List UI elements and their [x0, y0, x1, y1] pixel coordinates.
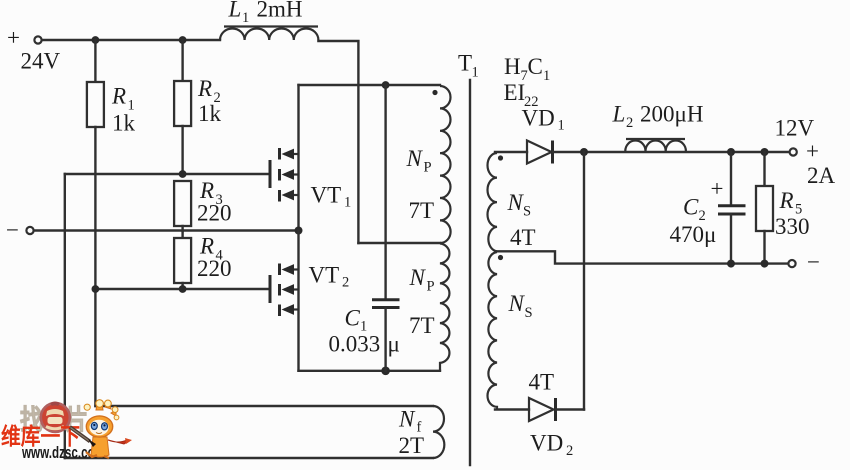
value label L2 200uH	[612, 102, 704, 132]
wire primary center tap	[358, 242, 440, 244]
value label R1 1k	[111, 84, 136, 136]
svg-text:P: P	[427, 279, 435, 295]
label VT2	[309, 263, 350, 291]
svg-text:−: −	[6, 218, 19, 243]
svg-text:1: 1	[344, 195, 351, 211]
transformer core T1	[469, 80, 471, 465]
junction dot R5 top	[761, 148, 769, 156]
svg-text:N: N	[398, 407, 416, 432]
svg-text:N: N	[508, 291, 526, 316]
junction dot R5 bottom	[761, 260, 769, 268]
watermark logo dzsc	[1, 400, 132, 462]
value label R4 220	[197, 234, 232, 282]
svg-text:VT: VT	[311, 183, 342, 208]
svg-text:S: S	[523, 204, 531, 220]
svg-text:H: H	[504, 54, 521, 79]
transformer T1 primary winding lower Np	[440, 244, 449, 371]
svg-text:220: 220	[197, 256, 232, 281]
svg-text:1: 1	[558, 118, 565, 134]
junction dot C1 bottom	[381, 367, 390, 376]
svg-text:2T: 2T	[399, 433, 425, 458]
node - input terminal	[6, 218, 34, 243]
svg-text:R: R	[779, 188, 794, 213]
svg-text:T: T	[458, 51, 472, 76]
junction dot C1 top	[382, 81, 390, 89]
svg-text:7T: 7T	[409, 198, 435, 223]
node - output terminal	[788, 250, 820, 275]
svg-text:μ: μ	[388, 332, 400, 357]
svg-text:+: +	[7, 25, 20, 50]
label VD1	[522, 106, 565, 134]
svg-text:12V: 12V	[775, 116, 815, 141]
node + input terminal 24V	[7, 25, 61, 74]
label core H7C1 EI22	[504, 54, 551, 110]
value label R3 220	[197, 178, 232, 226]
wire feedback left drop	[64, 174, 66, 458]
svg-text:P: P	[424, 160, 432, 176]
wire L1 to center tap	[318, 41, 358, 243]
label Np 7T lower	[409, 265, 435, 338]
label Np 7T upper	[406, 146, 435, 223]
inductor L2	[625, 139, 686, 151]
svg-text:1: 1	[242, 10, 249, 26]
junction dot C2 bottom	[727, 260, 735, 268]
label Ns lower	[508, 291, 533, 321]
inductor L1	[220, 27, 318, 41]
diode VD2	[529, 398, 556, 421]
svg-text:0.033: 0.033	[329, 332, 381, 357]
value label L1 2mH	[228, 0, 303, 26]
junction dot rectifier node	[580, 148, 588, 156]
svg-text:2mH: 2mH	[257, 0, 303, 22]
svg-text:R: R	[199, 178, 214, 203]
svg-text:220: 220	[197, 201, 232, 226]
svg-text:2: 2	[566, 443, 573, 459]
svg-text:470μ: 470μ	[670, 222, 717, 247]
capacitor C2	[711, 152, 746, 264]
svg-text:L: L	[612, 102, 626, 127]
junction dot R4 bottom	[179, 285, 187, 293]
svg-text:4T: 4T	[510, 225, 536, 250]
wire VD1 to output plus rail	[553, 151, 790, 153]
svg-text:VT: VT	[309, 263, 340, 288]
diode VD1	[527, 141, 553, 164]
wire VT1 drain top rail	[299, 84, 441, 86]
label T1	[458, 51, 479, 81]
svg-text:1k: 1k	[112, 111, 136, 136]
svg-text:7T: 7T	[409, 313, 435, 338]
capacitor C1	[372, 85, 400, 371]
svg-text:C: C	[528, 54, 543, 79]
junction dot R1 top	[92, 36, 100, 44]
svg-text:2A: 2A	[807, 163, 836, 188]
svg-text:EI: EI	[504, 80, 526, 105]
label VT1	[311, 183, 352, 211]
svg-text:200μH: 200μH	[640, 102, 703, 127]
value label C1 0.033 u	[329, 306, 400, 357]
wire +24V rail	[42, 39, 220, 41]
transistor VT1	[270, 85, 299, 231]
label Ns 4T upper	[507, 190, 536, 250]
wire VT2 gate line	[95, 288, 270, 290]
transistor VT2	[270, 231, 299, 371]
svg-text:330: 330	[775, 214, 810, 239]
svg-text:C: C	[683, 195, 699, 220]
svg-text:1: 1	[543, 68, 550, 84]
value label R2 1k	[197, 76, 222, 126]
feedback winding Nf top rail	[95, 405, 433, 407]
junction dot R1/VT2 gate node	[92, 285, 100, 293]
svg-text:N: N	[507, 190, 525, 215]
label Nf 2T	[398, 407, 424, 459]
junction dot C2 top	[727, 148, 735, 156]
svg-text:N: N	[406, 146, 424, 171]
wire secondary top to VD1	[495, 151, 527, 153]
svg-text:R: R	[197, 76, 212, 101]
svg-text:+: +	[806, 139, 819, 164]
svg-text:R: R	[111, 84, 126, 109]
svg-text:VD: VD	[530, 431, 563, 456]
svg-text:+: +	[711, 176, 724, 201]
junction dot R2/R3 gate node	[179, 170, 187, 178]
svg-text:4T: 4T	[529, 370, 555, 395]
wire VD2 to rectifier bus	[556, 408, 584, 410]
svg-text:L: L	[228, 0, 242, 22]
svg-text:VD: VD	[522, 106, 555, 131]
svg-text:24V: 24V	[21, 49, 61, 74]
svg-text:R: R	[199, 234, 214, 259]
feedback winding Nf bottom rail	[65, 457, 433, 459]
svg-text:2: 2	[342, 275, 349, 291]
svg-text:1k: 1k	[198, 101, 222, 126]
label VD2	[530, 431, 573, 460]
resistor R5	[756, 152, 773, 264]
transformer secondary winding upper Ns	[487, 153, 497, 251]
resistor R2	[174, 40, 191, 174]
resistor R1	[87, 40, 104, 406]
wire VT1 gate line	[65, 173, 270, 175]
phase dot secondary lower	[498, 255, 503, 260]
wire secondary bottom to VD2	[495, 408, 529, 410]
wire minus rail	[34, 229, 299, 231]
wire rectifier bus VD1 to VD2	[583, 152, 585, 410]
wire secondary center tap	[497, 251, 788, 263]
svg-text:2: 2	[626, 115, 633, 131]
transformer secondary winding lower Ns	[488, 252, 498, 410]
svg-text:S: S	[525, 305, 533, 321]
resistor R4	[174, 231, 191, 289]
value label C2 470u	[670, 195, 717, 248]
resistor R3	[174, 181, 191, 231]
feedback winding Nf coil	[433, 406, 444, 458]
phase dot secondary upper	[498, 155, 503, 160]
svg-text:−: −	[807, 250, 820, 275]
svg-text:1: 1	[472, 65, 479, 81]
transformer T1 primary winding upper Np	[440, 86, 451, 243]
node + output terminal 12V 2A	[775, 116, 836, 189]
svg-text:N: N	[409, 265, 427, 290]
wire VT2 source bottom rail	[299, 370, 441, 372]
value label R5 330	[775, 188, 810, 239]
phase dot primary	[432, 90, 437, 95]
junction dot VT1 source / minus rail	[295, 227, 303, 235]
svg-text:C: C	[345, 306, 361, 331]
junction dot R2 top	[179, 36, 187, 44]
